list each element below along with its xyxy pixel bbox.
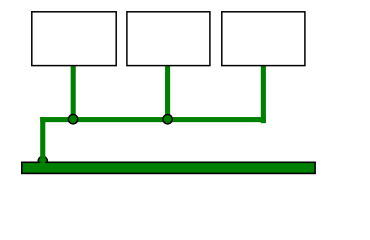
component box 3 — [222, 12, 305, 66]
component box 2 — [127, 12, 210, 66]
junction node on bus below box 1 — [68, 115, 77, 124]
wire: horizontal bus — [40, 117, 266, 122]
wire W1 from box 1 — [71, 63, 76, 122]
wire W3 from box 3 — [261, 63, 266, 123]
wire: left drop to ground bar — [40, 117, 45, 164]
junction dot at ground bar — [38, 156, 47, 165]
ground bus bar — [22, 162, 315, 173]
junction node on bus below box 2 — [163, 115, 172, 124]
component box 1 — [32, 12, 116, 66]
wire W2 from box 2 — [165, 63, 170, 122]
